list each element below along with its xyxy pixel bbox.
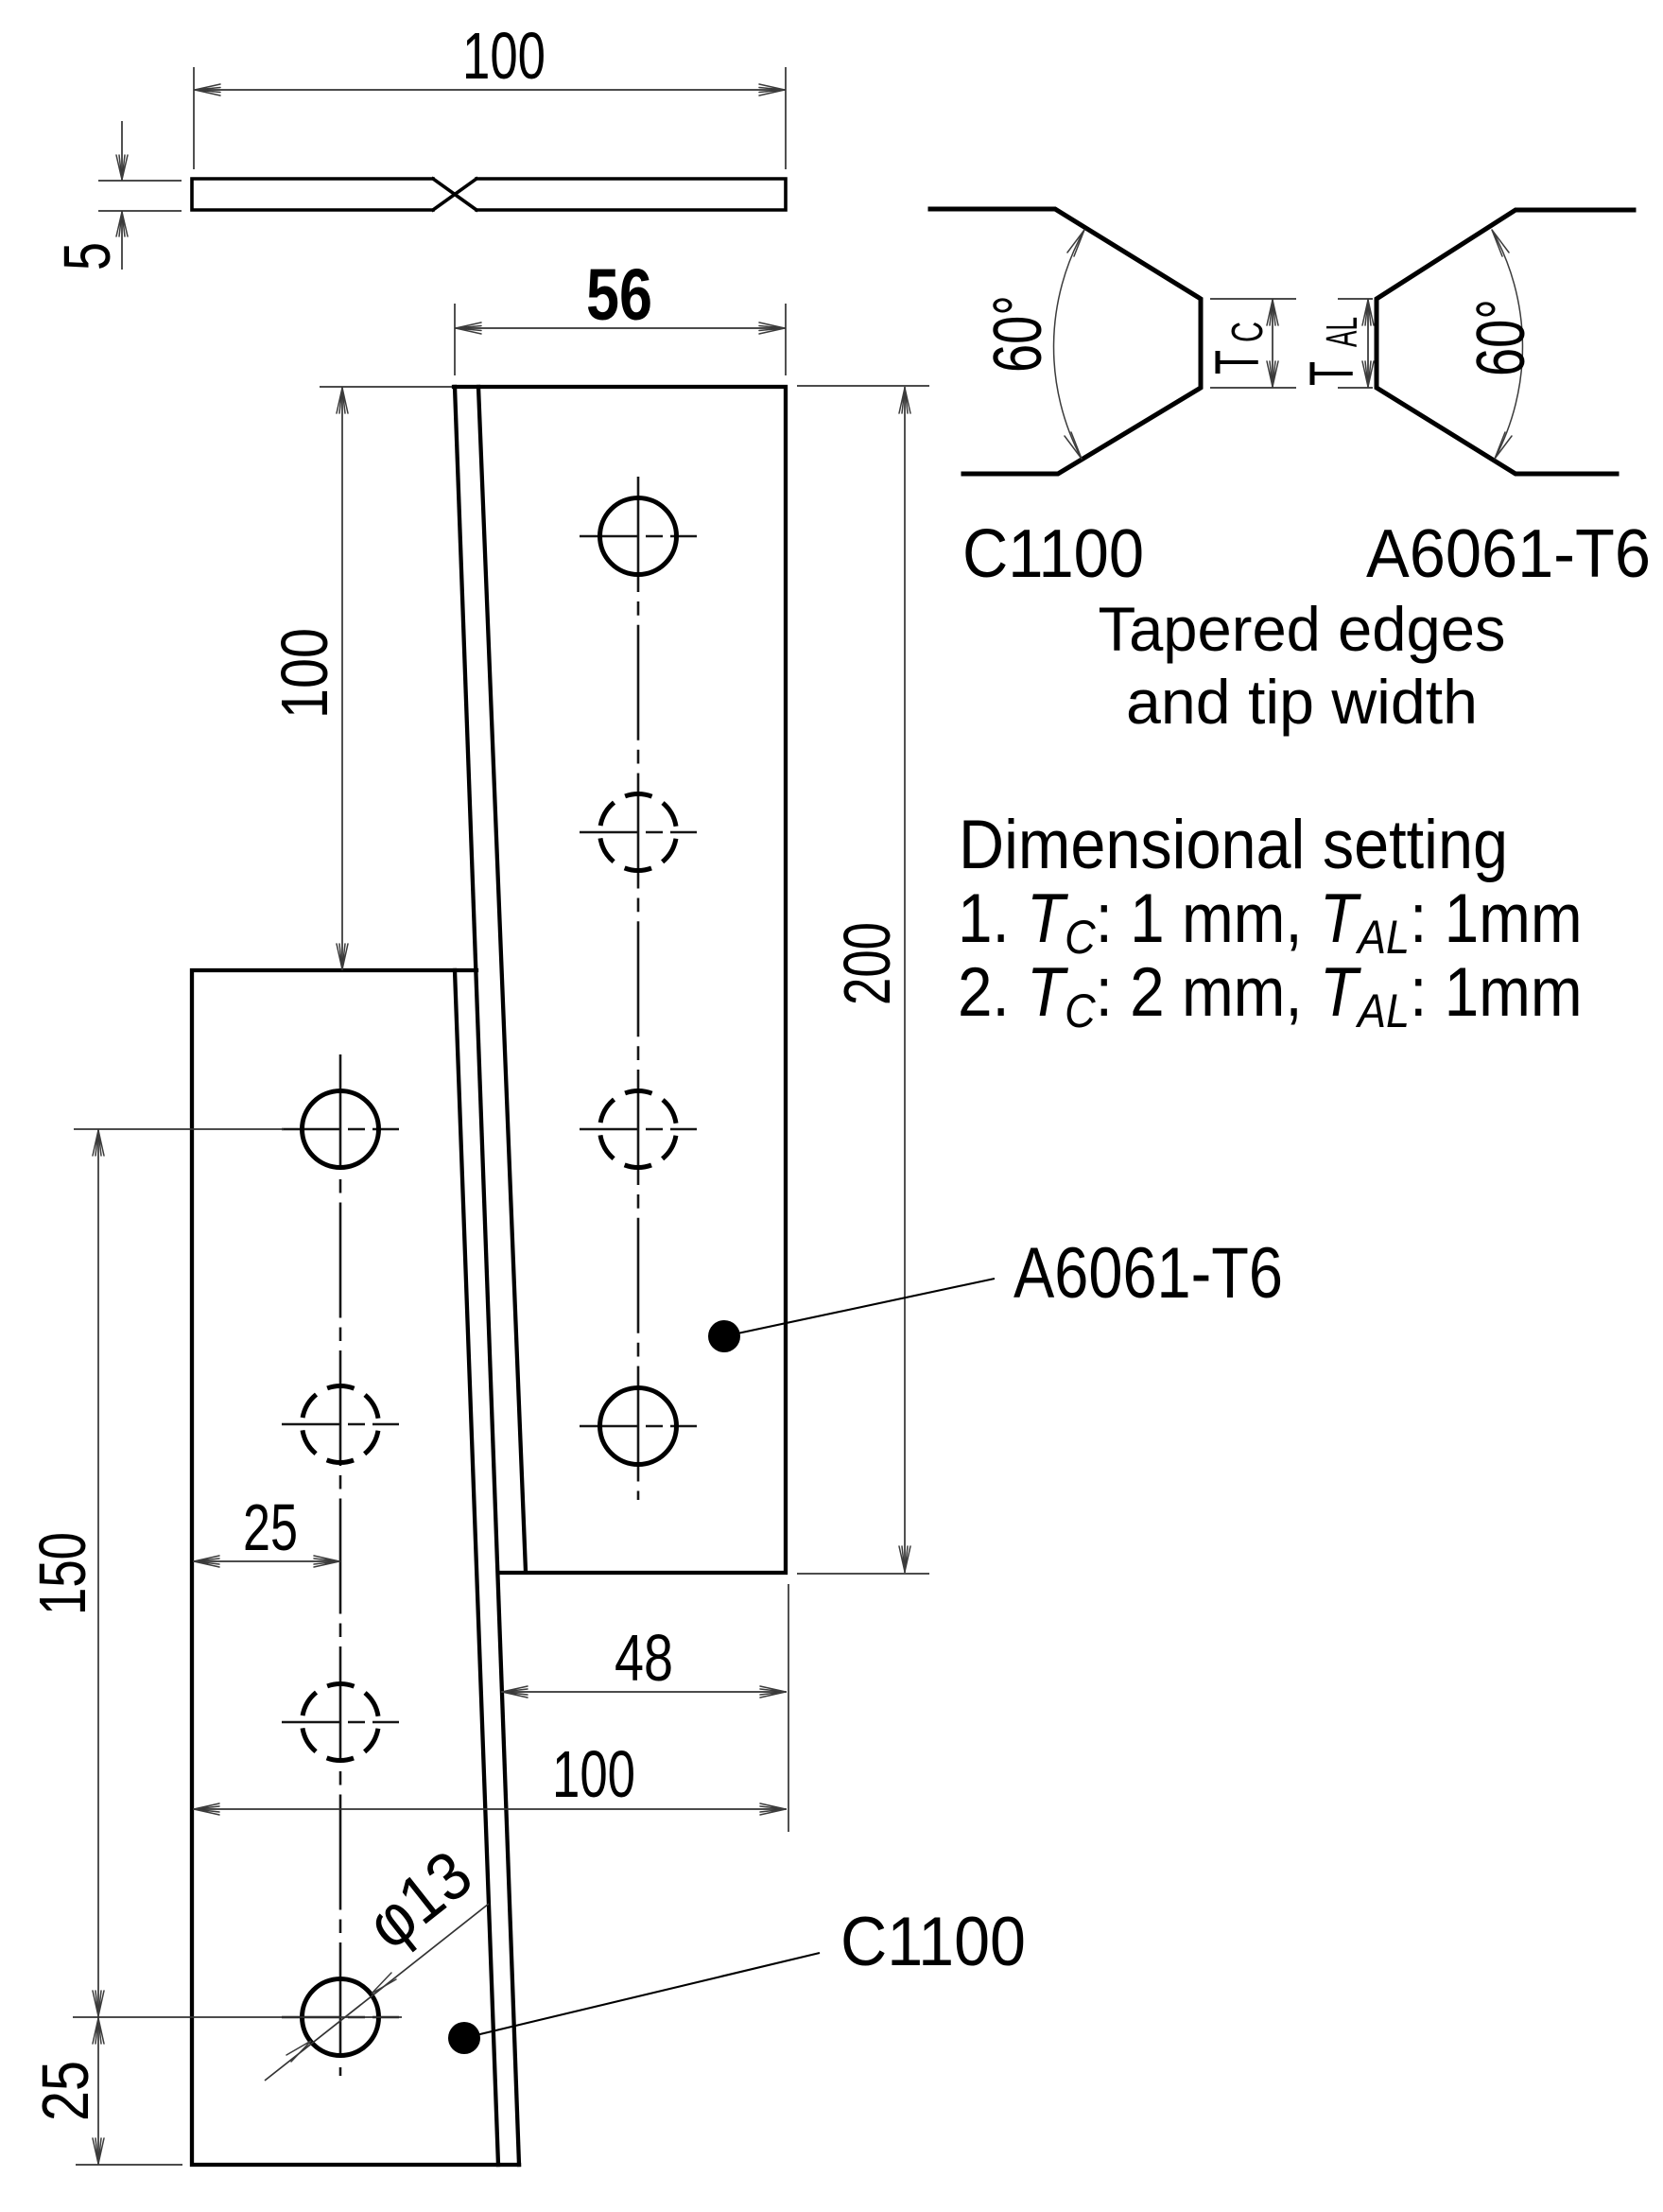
svg-text:56: 56 [586,254,652,336]
svg-text:100: 100 [462,19,546,93]
svg-text:25: 25 [28,2061,102,2121]
svg-text:and tip width: and tip width [1126,667,1478,737]
svg-text:C1100: C1100 [962,516,1144,592]
svg-text:60°: 60° [980,295,1056,373]
svg-text:Tapered edges: Tapered edges [1099,594,1506,664]
svg-text:48: 48 [615,1621,673,1695]
svg-text:25: 25 [243,1490,298,1564]
svg-text:200: 200 [830,922,904,1005]
svg-text:150: 150 [26,1532,99,1615]
svg-text:60°: 60° [1464,299,1539,376]
svg-text:A6061-T6: A6061-T6 [1013,1233,1283,1314]
svg-text:100: 100 [268,628,341,719]
svg-text:C1100: C1100 [840,1904,1026,1980]
svg-text:2. TC: 2 mm, TAL: 1mm: 2. TC: 2 mm, TAL: 1mm [958,953,1583,1038]
svg-text:A6061-T6: A6061-T6 [1366,516,1651,592]
svg-text:100: 100 [552,1737,635,1811]
svg-text:1. TC: 1 mm, TAL: 1mm: 1. TC: 1 mm, TAL: 1mm [958,880,1583,965]
svg-text:5: 5 [50,242,124,270]
svg-text:Dimensional setting: Dimensional setting [959,807,1508,883]
